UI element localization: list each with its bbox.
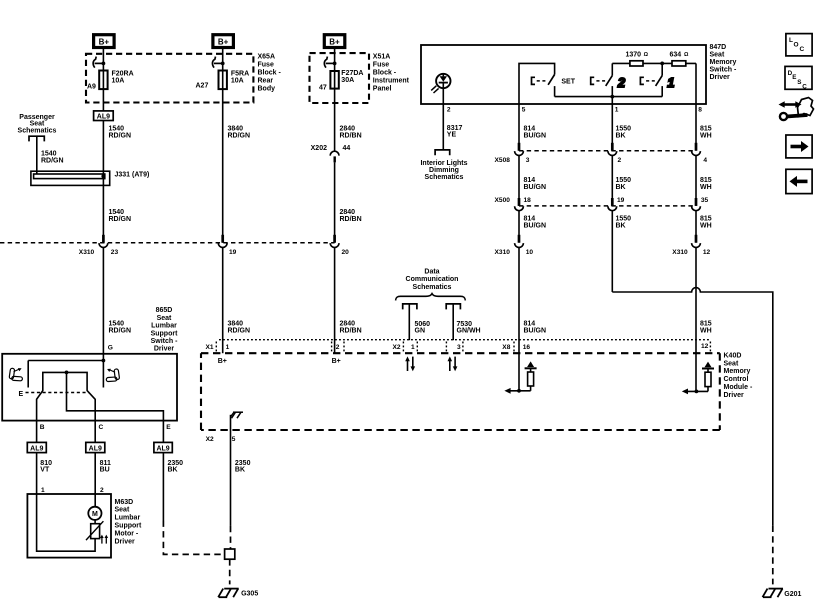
wire rocker to pin E xyxy=(67,372,164,442)
connector X508 pin 4 xyxy=(692,143,708,164)
motor M63D box xyxy=(27,494,111,558)
svg-text:BU/GN: BU/GN xyxy=(524,222,547,229)
svg-text:E: E xyxy=(19,391,24,398)
fuse F27DA 30A xyxy=(319,70,363,91)
icon back arrow xyxy=(786,169,812,193)
svg-text:Lumbar: Lumbar xyxy=(115,515,141,522)
connector row X500 dashed line xyxy=(519,205,696,207)
svg-text:35: 35 xyxy=(701,197,709,204)
svg-text:4: 4 xyxy=(703,157,707,164)
connector AL9 pin E xyxy=(154,442,172,452)
switch 847D label xyxy=(710,44,738,81)
svg-text:Fuse: Fuse xyxy=(373,61,389,68)
svg-text:AL9: AL9 xyxy=(89,445,102,452)
svg-text:Interior Lights: Interior Lights xyxy=(420,160,467,167)
svg-text:J331 (AT9): J331 (AT9) xyxy=(115,172,150,179)
resistor 1370 ohm xyxy=(626,51,649,66)
svg-text:O: O xyxy=(794,42,799,49)
svg-text:RD/BN: RD/BN xyxy=(340,133,362,140)
svg-text:47: 47 xyxy=(319,85,327,92)
switch 1 xyxy=(640,63,674,96)
svg-text:X202: X202 xyxy=(311,145,327,152)
svg-text:RD/GN: RD/GN xyxy=(109,328,132,335)
switch SET xyxy=(532,75,576,97)
fuse block X65A label xyxy=(258,53,282,92)
wire label 2840 RD/BN xyxy=(340,321,362,335)
wire 7 mid segment xyxy=(695,156,697,206)
ground G201 xyxy=(763,589,802,598)
svg-text:Schematics: Schematics xyxy=(18,127,57,134)
svg-text:10: 10 xyxy=(526,249,534,256)
wire 1 below X310 xyxy=(102,248,104,361)
svg-text:X51A: X51A xyxy=(373,53,391,60)
seat icon right xyxy=(106,369,119,382)
wire motor to thermal protector xyxy=(94,520,96,524)
connector row X310 dashed line xyxy=(0,242,335,244)
svg-text:BU/GN: BU/GN xyxy=(524,184,547,191)
svg-text:634: 634 xyxy=(670,51,682,58)
node pin1 junction xyxy=(610,95,614,99)
svg-text:RD/BN: RD/BN xyxy=(340,328,362,335)
node serial data branch 1 xyxy=(403,304,417,310)
wire 5 bottom segment xyxy=(518,248,520,391)
wire label 3840 RD/GN xyxy=(228,321,251,335)
serial data arrows X2-3 xyxy=(448,356,458,371)
svg-text:X310: X310 xyxy=(672,249,688,256)
wire B+3 to fuse 47 xyxy=(334,48,336,152)
svg-text:RD/GN: RD/GN xyxy=(228,328,251,335)
svg-text:B+: B+ xyxy=(329,38,340,47)
svg-text:Driver: Driver xyxy=(710,74,731,81)
wire label 2840 RD/BN xyxy=(340,126,362,140)
fuse block X51A dashed outline xyxy=(310,53,370,103)
svg-text:3: 3 xyxy=(457,344,461,351)
connector X500 pin 19 xyxy=(608,197,625,211)
wire label 814 BU/GN xyxy=(524,177,547,191)
connector AL9 pin C xyxy=(86,442,105,452)
svg-text:1: 1 xyxy=(411,344,415,351)
direction arrows xyxy=(100,535,108,544)
svg-text:BK: BK xyxy=(616,133,626,140)
svg-text:Motor -: Motor - xyxy=(115,530,139,537)
svg-text:X310: X310 xyxy=(79,249,95,256)
svg-text:20: 20 xyxy=(342,249,350,256)
wire label 815 WH xyxy=(700,216,712,230)
svg-text:BU/GN: BU/GN xyxy=(524,327,547,334)
svg-text:Memory: Memory xyxy=(710,59,737,66)
wire right contact stub xyxy=(102,361,104,388)
wire internal common rail xyxy=(28,360,103,362)
svg-text:G201: G201 xyxy=(784,591,801,598)
wire to G201 dashed xyxy=(772,526,774,585)
wire 6 top segment xyxy=(611,97,613,151)
module K40D label xyxy=(724,352,753,399)
svg-text:Seat: Seat xyxy=(710,51,725,58)
wire 7 bottom segment xyxy=(695,248,697,392)
svg-text:Schematics: Schematics xyxy=(425,174,464,181)
wire B+1 to fuse A9 xyxy=(102,48,104,111)
wire label 810 VT xyxy=(40,460,52,474)
svg-text:Ω: Ω xyxy=(644,52,649,58)
svg-text:2: 2 xyxy=(618,157,622,164)
wire SET riser xyxy=(519,63,555,104)
terminal clip A9 xyxy=(93,57,105,68)
svg-text:E: E xyxy=(792,74,796,81)
ground stub X2-5 internal xyxy=(231,412,244,430)
wire label 811 BU xyxy=(100,460,111,474)
wire label 5060 GN xyxy=(415,321,431,335)
icon troubleshooting xyxy=(779,98,814,121)
wire label 1550 BK xyxy=(616,177,632,191)
svg-text:Data: Data xyxy=(424,268,439,275)
svg-text:B+: B+ xyxy=(99,38,110,47)
svg-text:Block -: Block - xyxy=(373,69,397,76)
svg-text:X310: X310 xyxy=(495,249,511,256)
wire 3 below X310 xyxy=(334,248,336,354)
connector X310 pin 23 xyxy=(79,235,119,256)
svg-text:847D: 847D xyxy=(710,44,727,51)
thermal protector xyxy=(86,521,103,540)
switch 865D label xyxy=(151,307,179,353)
svg-text:B: B xyxy=(40,424,45,431)
svg-text:GN/WH: GN/WH xyxy=(457,328,481,335)
pin X1-1 label xyxy=(206,344,230,351)
wire left contact stub xyxy=(27,361,29,388)
svg-text:Seat: Seat xyxy=(157,315,172,322)
svg-text:A27: A27 xyxy=(196,83,209,90)
wire passenger branch xyxy=(36,136,38,174)
svg-text:30A: 30A xyxy=(341,77,354,84)
svg-text:1370: 1370 xyxy=(626,51,642,58)
svg-text:VT: VT xyxy=(40,467,50,474)
node serial data branch 2 xyxy=(446,304,460,310)
svg-text:Driver: Driver xyxy=(154,346,175,353)
internal circuit pin 16 xyxy=(504,361,536,393)
node Interior Lights Dimming reference xyxy=(420,150,467,181)
svg-text:WH: WH xyxy=(700,222,712,229)
wire label 814 BU/GN xyxy=(524,321,547,335)
svg-text:BK: BK xyxy=(168,467,178,474)
wire 5 top segment xyxy=(518,104,520,151)
svg-text:Support: Support xyxy=(151,330,178,337)
svg-text:Ω: Ω xyxy=(684,52,689,58)
connector X500 pin 35 xyxy=(692,197,709,211)
svg-text:Control: Control xyxy=(724,376,749,383)
svg-text:BK: BK xyxy=(235,467,245,474)
wire label 8317 YE xyxy=(447,125,463,139)
svg-text:WH: WH xyxy=(700,327,712,334)
connector strip dotted line xyxy=(219,339,710,341)
power symbol B+ feed 2 xyxy=(213,35,234,48)
svg-text:B+: B+ xyxy=(218,358,227,365)
svg-text:19: 19 xyxy=(617,197,625,204)
svg-text:Memory: Memory xyxy=(724,368,751,375)
svg-text:C: C xyxy=(99,424,104,431)
svg-text:44: 44 xyxy=(343,145,351,152)
wire AL9 to J331 xyxy=(102,121,104,243)
svg-text:Communication: Communication xyxy=(406,276,459,283)
svg-text:Support: Support xyxy=(115,523,142,530)
svg-text:18: 18 xyxy=(524,197,532,204)
fuse F20RA 10A xyxy=(87,71,134,91)
icon LOC xyxy=(786,34,812,56)
svg-text:Fuse: Fuse xyxy=(258,61,274,68)
wire switch common bottom xyxy=(555,96,663,98)
svg-text:Seat: Seat xyxy=(115,507,130,514)
wire 6 mid segment xyxy=(611,156,613,206)
wire label 815 WH xyxy=(700,321,712,335)
svg-text:RD/BN: RD/BN xyxy=(340,216,362,223)
power symbol B+ feed 3 xyxy=(324,35,345,48)
svg-text:19: 19 xyxy=(229,249,237,256)
seat icon left xyxy=(9,368,22,381)
connector X202 pin 44 xyxy=(311,145,351,162)
wire serial data 1 xyxy=(408,304,410,340)
svg-text:Driver: Driver xyxy=(724,392,745,399)
wire label 1540 RD/GN xyxy=(109,209,132,223)
connector X508 pin 2 xyxy=(608,143,622,164)
connector strip separators xyxy=(216,342,710,352)
svg-text:RD/GN: RD/GN xyxy=(41,157,64,164)
wire rocker bridge B-C xyxy=(37,372,96,442)
svg-text:A9: A9 xyxy=(87,83,96,90)
wire serial data 2 xyxy=(452,304,454,340)
svg-text:2: 2 xyxy=(336,344,340,351)
connector AL9 pin B xyxy=(27,442,46,452)
svg-text:10A: 10A xyxy=(112,77,125,84)
svg-text:1: 1 xyxy=(667,75,674,90)
node rocker junction xyxy=(65,371,69,375)
svg-text:AL9: AL9 xyxy=(30,445,43,452)
svg-text:1: 1 xyxy=(615,106,619,113)
wire below X202 xyxy=(334,162,336,242)
wire X2-5 to splice xyxy=(230,430,232,526)
wire E ground path xyxy=(162,453,164,521)
internal circuit pin 12 xyxy=(682,362,714,395)
connector X310 pin 19 xyxy=(218,235,236,256)
svg-text:AL9: AL9 xyxy=(97,114,110,121)
wire splice to G305 dashed xyxy=(229,559,231,584)
svg-text:3: 3 xyxy=(526,157,530,164)
pin X2-1 label xyxy=(393,344,416,351)
wire label 815 WH xyxy=(700,126,712,140)
svg-text:SET: SET xyxy=(561,79,575,86)
wire label 2350 BK xyxy=(235,460,251,474)
svg-text:M: M xyxy=(92,511,98,518)
svg-text:WH: WH xyxy=(700,133,712,140)
svg-text:E: E xyxy=(166,424,171,431)
wire C to motor xyxy=(94,453,96,507)
power symbol B+ feed 1 xyxy=(94,35,115,48)
node Passenger Seat Schematics reference xyxy=(18,114,57,142)
pin X8-16 label xyxy=(502,344,530,351)
svg-text:Driver: Driver xyxy=(115,538,136,545)
switch 865D box xyxy=(2,354,177,421)
svg-text:X500: X500 xyxy=(495,197,511,204)
motor M63D label xyxy=(115,499,142,546)
svg-text:K40D: K40D xyxy=(724,352,742,359)
switch 847D box xyxy=(421,45,706,104)
svg-text:16: 16 xyxy=(523,344,531,351)
splice pack J331 (AT9) xyxy=(31,171,149,185)
svg-text:X2: X2 xyxy=(206,436,214,443)
connector AL9 (upper) xyxy=(94,111,114,121)
svg-text:YE: YE xyxy=(447,132,457,139)
svg-text:BK: BK xyxy=(616,222,626,229)
wire label 3840 RD/GN xyxy=(228,126,251,140)
wire label 1540 RD/GN xyxy=(109,321,132,335)
svg-text:Seat: Seat xyxy=(724,360,739,367)
wire label 2840 RD/BN xyxy=(340,209,362,223)
svg-text:C: C xyxy=(800,46,805,53)
terminal clip 47 xyxy=(324,57,336,68)
svg-text:5: 5 xyxy=(232,436,236,443)
svg-text:1: 1 xyxy=(226,344,230,351)
lamp LED illumination xyxy=(431,74,450,93)
connector row X508 dashed line xyxy=(519,150,696,152)
wire label 814 BU/GN xyxy=(524,126,547,140)
svg-text:RD/GN: RD/GN xyxy=(228,133,251,140)
icon forward arrow xyxy=(786,135,812,158)
pin X2-5 label xyxy=(206,436,236,443)
svg-text:WH: WH xyxy=(700,184,712,191)
svg-text:M63D: M63D xyxy=(115,499,134,506)
svg-text:BK: BK xyxy=(616,184,626,191)
svg-text:2: 2 xyxy=(447,106,451,113)
svg-text:Rear: Rear xyxy=(258,77,274,84)
icon DESC xyxy=(785,66,812,90)
node G junction xyxy=(102,359,106,363)
serial data arrows X2-1 xyxy=(405,356,415,371)
svg-text:Body: Body xyxy=(258,85,276,92)
splice xyxy=(225,549,235,559)
switch 2 xyxy=(591,63,626,96)
svg-text:BU/GN: BU/GN xyxy=(524,133,547,140)
svg-text:Module -: Module - xyxy=(724,384,753,391)
svg-text:5: 5 xyxy=(522,106,526,113)
ground G305 xyxy=(218,589,258,598)
wire label 1550 BK xyxy=(616,126,632,140)
svg-text:X1: X1 xyxy=(206,344,214,351)
wire label 815 WH xyxy=(700,177,712,191)
svg-text:Switch -: Switch - xyxy=(151,338,179,345)
svg-text:L: L xyxy=(789,37,793,44)
svg-text:B+: B+ xyxy=(332,358,341,365)
svg-text:12: 12 xyxy=(703,249,711,256)
wire 2 below X310 xyxy=(222,248,224,354)
wire 1550 BK to ground run with hop xyxy=(612,288,773,526)
wire label 814 BU/GN xyxy=(524,216,547,230)
wire label 7530 GN/WH xyxy=(457,321,481,335)
svg-text:S: S xyxy=(797,79,801,86)
svg-text:12: 12 xyxy=(701,343,709,350)
svg-text:Lumbar: Lumbar xyxy=(151,323,177,330)
connector X310 pin 10 xyxy=(495,235,534,256)
svg-text:RD/GN: RD/GN xyxy=(109,133,132,140)
wire B to motor xyxy=(37,453,96,552)
svg-text:8: 8 xyxy=(698,106,702,113)
wire lamp to pin 2 xyxy=(442,84,444,150)
wire label 1540 RD/GN xyxy=(41,151,64,165)
connector X508 pin 3 xyxy=(495,143,530,164)
connector X500 pin 18 xyxy=(495,197,532,211)
connector X310 pin 20 xyxy=(330,235,349,256)
fuse F5RA 10A xyxy=(196,71,250,90)
svg-text:Dimming: Dimming xyxy=(429,167,459,174)
fuse block X65A dashed outline xyxy=(86,54,253,103)
fuse block X51A label xyxy=(373,53,410,92)
svg-text:Schematics: Schematics xyxy=(413,284,452,291)
wire 7 lower segment xyxy=(695,211,697,243)
node resistor junction xyxy=(660,62,664,66)
switch rocker mechanical link xyxy=(26,392,89,394)
wire E ground path dashed xyxy=(163,521,224,555)
svg-text:X65A: X65A xyxy=(258,53,276,60)
svg-text:C: C xyxy=(802,84,807,91)
svg-text:2: 2 xyxy=(100,487,104,494)
svg-text:Block -: Block - xyxy=(258,69,282,76)
resistor 634 ohm xyxy=(670,51,690,66)
wire 5 lower segment xyxy=(518,211,520,243)
svg-text:G305: G305 xyxy=(241,591,258,598)
wire label 1550 BK xyxy=(616,216,632,230)
motor M63D xyxy=(88,507,101,520)
svg-text:G: G xyxy=(108,345,113,352)
svg-text:RD/GN: RD/GN xyxy=(109,216,132,223)
svg-text:X2: X2 xyxy=(393,344,401,351)
svg-text:1: 1 xyxy=(41,487,45,494)
svg-text:GN: GN xyxy=(415,328,426,335)
svg-text:B+: B+ xyxy=(218,38,229,47)
svg-text:Panel: Panel xyxy=(373,85,392,92)
wire label 1540 RD/GN xyxy=(109,126,132,140)
wire memory resistor rail xyxy=(612,62,696,64)
svg-text:10A: 10A xyxy=(231,77,244,84)
module K40D dashed box xyxy=(201,353,720,430)
wire pin 8 riser xyxy=(695,63,697,150)
svg-text:23: 23 xyxy=(111,249,119,256)
connector X310 pin 12 xyxy=(672,235,710,256)
svg-text:BU: BU xyxy=(100,467,110,474)
svg-text:AL9: AL9 xyxy=(156,445,169,452)
svg-text:Instrument: Instrument xyxy=(373,77,410,84)
svg-text:865D: 865D xyxy=(156,307,173,314)
svg-text:X508: X508 xyxy=(495,157,511,164)
wire label 2350 BK xyxy=(168,460,184,474)
node Data Communication reference xyxy=(396,268,466,300)
terminal clip A27 xyxy=(212,57,224,68)
svg-text:Switch -: Switch - xyxy=(710,66,738,73)
svg-text:X8: X8 xyxy=(502,344,510,351)
wire 6 lower segment xyxy=(611,211,613,292)
wire 5 mid segment xyxy=(518,156,520,206)
wire B+2 to fuse A27 xyxy=(222,48,224,243)
svg-text:2: 2 xyxy=(617,75,626,90)
